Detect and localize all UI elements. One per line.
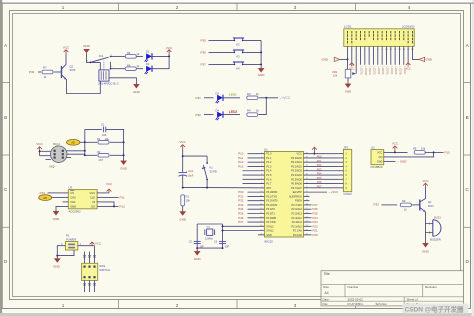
svg-text:U3: U3 bbox=[69, 186, 73, 190]
svg-text:P37: P37 bbox=[238, 220, 244, 224]
svg-text:P3.1/TXD: P3.1/TXD bbox=[266, 195, 277, 198]
svg-text:2022-05-02: 2022-05-02 bbox=[348, 297, 364, 301]
svg-text:Q2: Q2 bbox=[70, 65, 74, 69]
svg-text:P2.5/A13: P2.5/A13 bbox=[292, 212, 303, 215]
svg-text:19: 19 bbox=[260, 229, 262, 231]
svg-text:R8: R8 bbox=[413, 147, 417, 151]
svg-text:P2.4/A12: P2.4/A12 bbox=[292, 217, 303, 220]
svg-text:LCD1: LCD1 bbox=[344, 24, 352, 28]
svg-text:CH1: CH1 bbox=[70, 200, 76, 204]
svg-text:ALE/PROG: ALE/PROG bbox=[289, 195, 302, 198]
svg-text:LCDD4: LCDD4 bbox=[390, 67, 393, 76]
svg-text:10uF: 10uF bbox=[188, 174, 194, 178]
svg-text:R9: R9 bbox=[402, 199, 406, 203]
svg-text:P1.2: P1.2 bbox=[266, 161, 272, 164]
svg-text:Number: Number bbox=[348, 285, 359, 289]
svg-text:P3.5/T1: P3.5/T1 bbox=[266, 212, 275, 215]
svg-text:POWER: POWER bbox=[66, 238, 76, 242]
svg-text:GND: GND bbox=[53, 217, 61, 221]
svg-text:P20: P20 bbox=[313, 233, 319, 237]
svg-text:P13: P13 bbox=[40, 191, 46, 195]
svg-text:LCDRW: LCDRW bbox=[364, 67, 367, 76]
svg-text:P1.7: P1.7 bbox=[266, 183, 272, 186]
svg-text:VCC: VCC bbox=[422, 179, 429, 183]
svg-text:Revision: Revision bbox=[425, 285, 437, 289]
svg-text:3: 3 bbox=[87, 61, 88, 63]
svg-text:AD: AD bbox=[71, 141, 75, 145]
svg-text:10k: 10k bbox=[421, 147, 426, 151]
svg-text:D:\JYJD51\..: D:\JYJD51\.. bbox=[348, 302, 365, 306]
svg-text:B: B bbox=[466, 115, 469, 120]
svg-text:10k: 10k bbox=[186, 199, 191, 203]
svg-text:GND: GND bbox=[70, 205, 76, 209]
svg-text:Sheet of: Sheet of bbox=[407, 297, 418, 301]
svg-text:P10: P10 bbox=[445, 151, 451, 155]
svg-text:P02: P02 bbox=[317, 163, 322, 167]
svg-text:B: B bbox=[4, 115, 7, 120]
svg-text:VCC: VCC bbox=[90, 191, 96, 195]
svg-text:CH0: CH0 bbox=[70, 196, 76, 200]
svg-text:GND: GND bbox=[426, 57, 434, 61]
svg-text:10k: 10k bbox=[105, 137, 110, 141]
svg-text:VCC: VCC bbox=[166, 46, 173, 50]
svg-text:P1.4: P1.4 bbox=[266, 170, 272, 173]
svg-text:GND: GND bbox=[345, 90, 351, 94]
svg-text:Y1: Y1 bbox=[207, 225, 211, 229]
svg-text:P06: P06 bbox=[317, 180, 322, 184]
svg-text:LCDD1: LCDD1 bbox=[377, 67, 380, 76]
svg-text:P3.7/RD: P3.7/RD bbox=[266, 221, 276, 224]
svg-text:P33: P33 bbox=[374, 202, 380, 206]
svg-text:9015: 9015 bbox=[70, 68, 76, 72]
svg-text:Date:: Date: bbox=[323, 297, 330, 301]
svg-text:P2.2/A10: P2.2/A10 bbox=[292, 225, 303, 228]
svg-text:D2: D2 bbox=[146, 62, 150, 66]
svg-text:LCDD3: LCDD3 bbox=[386, 67, 389, 76]
svg-text:P0.7/AD7: P0.7/AD7 bbox=[291, 187, 302, 190]
svg-text:4: 4 bbox=[408, 5, 411, 10]
svg-text:9: 9 bbox=[261, 187, 262, 189]
svg-text:P12: P12 bbox=[120, 205, 126, 209]
svg-text:Title: Title bbox=[324, 272, 330, 276]
svg-text:P31: P31 bbox=[196, 96, 202, 100]
svg-text:+VCC: +VCC bbox=[331, 190, 339, 194]
svg-text:+VCC: +VCC bbox=[282, 96, 291, 100]
svg-text:D4: D4 bbox=[216, 108, 220, 112]
svg-text:C1: C1 bbox=[101, 123, 105, 127]
svg-text:K2: K2 bbox=[236, 43, 240, 47]
svg-text:GND: GND bbox=[322, 57, 330, 61]
svg-text:LED1: LED1 bbox=[229, 93, 237, 97]
svg-text:R4: R4 bbox=[97, 137, 101, 141]
svg-text:JC1: JC1 bbox=[99, 54, 104, 58]
svg-text:P01: P01 bbox=[317, 159, 322, 163]
svg-text:U2: U2 bbox=[371, 146, 375, 150]
svg-text:LCDEN: LCDEN bbox=[368, 67, 371, 75]
svg-text:104: 104 bbox=[102, 133, 107, 137]
svg-text:10k: 10k bbox=[333, 73, 338, 77]
svg-text:3: 3 bbox=[294, 303, 297, 308]
svg-text:DO: DO bbox=[91, 205, 95, 209]
svg-text:LED2: LED2 bbox=[229, 110, 237, 114]
svg-text:VO: VO bbox=[351, 63, 355, 67]
svg-text:VCC: VCC bbox=[36, 142, 43, 146]
svg-text:VCC: VCC bbox=[392, 142, 398, 146]
svg-text:P30: P30 bbox=[29, 70, 35, 74]
svg-text:VCC: VCC bbox=[297, 153, 302, 156]
svg-text:CON10: CON10 bbox=[343, 193, 352, 196]
svg-text:XTAL1: XTAL1 bbox=[266, 230, 274, 233]
svg-text:VCC: VCC bbox=[106, 182, 112, 186]
svg-text:VCC: VCC bbox=[406, 68, 411, 71]
svg-text:R2: R2 bbox=[97, 150, 101, 154]
svg-text:EA/VPP: EA/VPP bbox=[293, 191, 302, 194]
svg-text:GND: GND bbox=[179, 217, 187, 221]
svg-text:Size: Size bbox=[323, 285, 329, 289]
svg-text:P0.3/AD3: P0.3/AD3 bbox=[291, 170, 302, 173]
svg-text:P2.3/A11: P2.3/A11 bbox=[292, 221, 303, 224]
svg-text:R5: R5 bbox=[127, 51, 131, 55]
svg-text:1: 1 bbox=[62, 303, 65, 308]
svg-text:D3: D3 bbox=[216, 92, 220, 96]
svg-text:VCC: VCC bbox=[377, 150, 383, 154]
svg-text:P1.3: P1.3 bbox=[266, 165, 272, 168]
svg-text:P11: P11 bbox=[120, 196, 125, 200]
svg-text:P2.1/A9: P2.1/A9 bbox=[293, 230, 303, 233]
svg-text:GND: GND bbox=[377, 159, 383, 163]
svg-text:P37: P37 bbox=[201, 63, 207, 67]
svg-text:D1: D1 bbox=[146, 50, 150, 54]
svg-text:P2.7/A15: P2.7/A15 bbox=[292, 204, 303, 207]
svg-text:PSEN: PSEN bbox=[295, 200, 302, 203]
svg-text:2: 2 bbox=[176, 5, 179, 10]
svg-text:K3: K3 bbox=[236, 55, 240, 59]
svg-text:P00: P00 bbox=[317, 155, 322, 159]
svg-text:VCC: VCC bbox=[180, 140, 187, 144]
svg-text:P07: P07 bbox=[317, 184, 322, 188]
svg-text:18: 18 bbox=[260, 225, 262, 227]
svg-text:P3.0/RXD: P3.0/RXD bbox=[266, 191, 277, 194]
svg-text:K4: K4 bbox=[236, 67, 240, 71]
svg-text:P13: P13 bbox=[238, 164, 244, 168]
svg-text:GND: GND bbox=[83, 44, 91, 48]
svg-text:89C52: 89C52 bbox=[264, 239, 273, 243]
svg-text:BUZ1: BUZ1 bbox=[434, 215, 441, 219]
svg-text:P3.3/INT1: P3.3/INT1 bbox=[266, 204, 278, 207]
svg-text:CS: CS bbox=[70, 191, 74, 195]
svg-text:P0.1/AD1: P0.1/AD1 bbox=[291, 161, 302, 164]
svg-text:LCDD5: LCDD5 bbox=[394, 67, 397, 76]
svg-text:P1.5: P1.5 bbox=[266, 174, 272, 177]
svg-text:U1: U1 bbox=[264, 147, 268, 151]
svg-text:File:: File: bbox=[323, 302, 329, 306]
svg-text:GND: GND bbox=[258, 73, 266, 77]
svg-text:VR1: VR1 bbox=[332, 70, 338, 74]
svg-text:BUZZER: BUZZER bbox=[430, 238, 441, 242]
svg-text:VCC: VCC bbox=[63, 46, 70, 50]
svg-text:P0.0/AD0: P0.0/AD0 bbox=[291, 157, 302, 160]
svg-text:LCDD2: LCDD2 bbox=[381, 67, 384, 76]
svg-text:P1.6: P1.6 bbox=[266, 178, 272, 181]
svg-text:VCC: VCC bbox=[95, 241, 101, 245]
svg-text:R4: R4 bbox=[247, 109, 251, 113]
svg-text:P2.0/A8: P2.0/A8 bbox=[293, 234, 303, 237]
svg-text:LCDD6: LCDD6 bbox=[399, 67, 402, 76]
svg-text:JP1: JP1 bbox=[343, 145, 348, 149]
svg-text:ADC0832: ADC0832 bbox=[69, 209, 82, 213]
svg-text:30P: 30P bbox=[225, 245, 230, 248]
svg-text:P0.4/AD4: P0.4/AD4 bbox=[291, 174, 302, 177]
svg-text:XTAL2: XTAL2 bbox=[266, 225, 274, 228]
svg-text:P35: P35 bbox=[201, 39, 207, 43]
svg-text:P03: P03 bbox=[317, 167, 322, 171]
svg-text:GND: GND bbox=[400, 160, 406, 164]
svg-text:9013: 9013 bbox=[428, 205, 434, 208]
svg-text:P0.5/AD5: P0.5/AD5 bbox=[291, 178, 302, 181]
svg-text:P32: P32 bbox=[196, 113, 202, 117]
svg-text:SWITCH: SWITCH bbox=[99, 268, 110, 272]
svg-text:1: 1 bbox=[62, 5, 65, 10]
svg-text:CLK: CLK bbox=[90, 196, 95, 200]
svg-text:R7: R7 bbox=[43, 66, 47, 70]
svg-text:LCDD0: LCDD0 bbox=[373, 67, 376, 76]
svg-text:K1: K1 bbox=[210, 166, 214, 170]
svg-text:+ CA1: + CA1 bbox=[186, 169, 194, 173]
svg-text:P0.2/AD2: P0.2/AD2 bbox=[291, 165, 302, 168]
svg-text:S2-PB: S2-PB bbox=[210, 171, 218, 174]
svg-text:P04: P04 bbox=[317, 172, 322, 176]
svg-text:2: 2 bbox=[176, 303, 179, 308]
svg-text:JDQ-4PVDC-SL-C: JDQ-4PVDC-SL-C bbox=[98, 83, 119, 86]
svg-text:GND: GND bbox=[194, 257, 202, 261]
svg-text:P05: P05 bbox=[317, 176, 322, 180]
svg-text:RST: RST bbox=[266, 187, 271, 190]
svg-text:SW1: SW1 bbox=[99, 264, 106, 268]
svg-text:DI: DI bbox=[93, 200, 96, 204]
svg-text:P1.0: P1.0 bbox=[266, 153, 272, 156]
svg-text:Q1: Q1 bbox=[428, 200, 432, 204]
svg-text:P36: P36 bbox=[201, 51, 207, 55]
svg-text:P1.1: P1.1 bbox=[266, 157, 272, 160]
svg-text:R1: R1 bbox=[186, 195, 190, 199]
svg-text:P1: P1 bbox=[66, 234, 70, 238]
svg-text:DS18B20: DS18B20 bbox=[371, 165, 383, 169]
svg-text:P3.6/WR: P3.6/WR bbox=[266, 217, 276, 220]
svg-text:AD: AD bbox=[43, 196, 47, 200]
svg-text:MQ: MQ bbox=[50, 164, 55, 168]
svg-text:R3: R3 bbox=[247, 92, 251, 96]
svg-text:MQ-2: MQ-2 bbox=[53, 142, 60, 146]
svg-text:30P: 30P bbox=[200, 245, 205, 248]
svg-text:4K7: 4K7 bbox=[99, 158, 104, 162]
svg-text:DQ: DQ bbox=[379, 155, 383, 159]
svg-text:GND: GND bbox=[120, 167, 128, 171]
svg-text:A4: A4 bbox=[325, 291, 329, 295]
svg-text:P3.4/T0: P3.4/T0 bbox=[266, 208, 275, 211]
svg-text:P2.6/A14: P2.6/A14 bbox=[292, 208, 303, 211]
svg-text:LCD1602: LCD1602 bbox=[402, 24, 415, 28]
svg-text:Sch.Doc: Sch.Doc bbox=[376, 302, 388, 306]
svg-text:GND: GND bbox=[422, 249, 430, 253]
svg-text:GND: GND bbox=[53, 264, 61, 268]
svg-text:12MHz: 12MHz bbox=[205, 237, 214, 240]
svg-text:GND: GND bbox=[133, 90, 141, 94]
svg-text:P3.2/INT0: P3.2/INT0 bbox=[266, 200, 278, 203]
svg-text:3: 3 bbox=[294, 5, 297, 10]
svg-text:CSDN @电子开发圈: CSDN @电子开发圈 bbox=[405, 304, 465, 313]
svg-text:LCDRS: LCDRS bbox=[360, 67, 363, 76]
svg-text:R6: R6 bbox=[127, 63, 131, 67]
svg-text:GND: GND bbox=[266, 234, 272, 237]
svg-text:P0.6/AD6: P0.6/AD6 bbox=[291, 183, 302, 186]
